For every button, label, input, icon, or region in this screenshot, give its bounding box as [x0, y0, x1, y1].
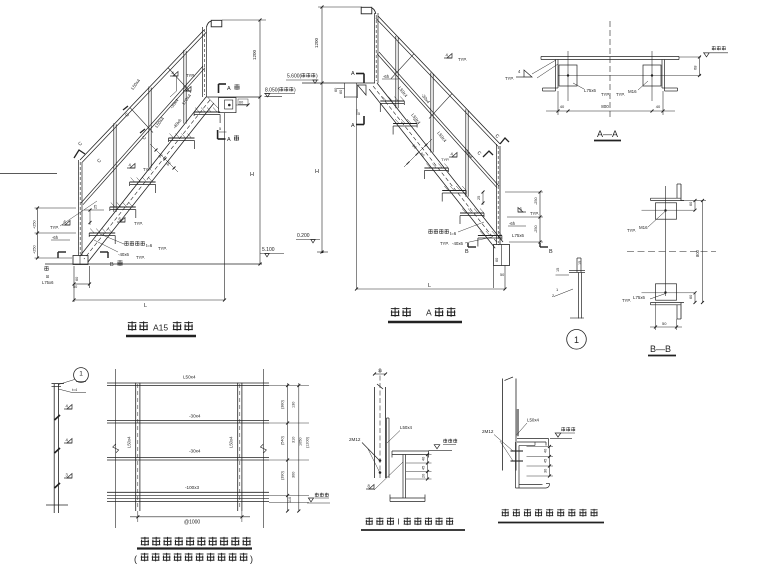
- svg-text:1200: 1200: [252, 49, 257, 60]
- svg-text:5.600(: 5.600(: [287, 74, 302, 80]
- svg-text:25: 25: [94, 205, 98, 209]
- svg-text:60: 60: [239, 101, 243, 105]
- svg-text:1: 1: [574, 335, 579, 345]
- svg-text:TYP.: TYP.: [50, 225, 59, 230]
- svg-text:1: 1: [79, 371, 83, 378]
- svg-text:(: (: [134, 554, 137, 564]
- svg-text:L50x4: L50x4: [183, 375, 196, 380]
- svg-text:H: H: [315, 169, 319, 175]
- svg-text:15: 15: [578, 261, 582, 265]
- svg-text:130: 130: [292, 402, 296, 408]
- svg-text:1050: 1050: [299, 438, 303, 446]
- svg-text:60: 60: [689, 295, 693, 299]
- svg-text:(1200): (1200): [306, 436, 310, 448]
- svg-text:50: 50: [73, 285, 77, 289]
- svg-text:A: A: [351, 71, 355, 77]
- svg-text:40: 40: [560, 104, 565, 109]
- svg-text:L50x4: L50x4: [400, 425, 413, 430]
- svg-text:M16: M16: [639, 225, 648, 230]
- svg-text:I: I: [398, 518, 400, 527]
- svg-text:L75x6: L75x6: [512, 233, 525, 238]
- svg-text:50: 50: [662, 321, 667, 326]
- svg-text:8.050(: 8.050(: [265, 88, 280, 94]
- svg-text:(540): (540): [281, 435, 285, 445]
- svg-text:TYP.: TYP.: [601, 92, 610, 97]
- svg-text:110: 110: [288, 497, 292, 503]
- svg-text:-250: -250: [534, 225, 538, 233]
- svg-text:60: 60: [495, 258, 499, 262]
- svg-text:TYP.: TYP.: [616, 92, 625, 97]
- svg-text:(390): (390): [281, 470, 285, 480]
- svg-text:40: 40: [656, 104, 661, 109]
- svg-text:TYP.: TYP.: [441, 157, 449, 162]
- svg-text:-6h: -6h: [52, 235, 59, 240]
- svg-text:-40x6: -40x6: [452, 241, 464, 246]
- svg-text:1200: 1200: [314, 37, 319, 48]
- svg-text:15: 15: [556, 268, 560, 272]
- svg-text:TYP.: TYP.: [440, 241, 449, 246]
- svg-text:45: 45: [422, 466, 426, 470]
- svg-text:A: A: [227, 86, 231, 92]
- svg-text:t=6: t=6: [450, 231, 457, 236]
- svg-text:TYP.: TYP.: [143, 167, 152, 172]
- svg-text:-100x3: -100x3: [185, 485, 199, 490]
- svg-text:25: 25: [477, 196, 481, 200]
- svg-text:300: 300: [292, 472, 296, 478]
- svg-text:B: B: [549, 249, 553, 255]
- svg-text:20: 20: [422, 474, 426, 478]
- svg-text:5: 5: [219, 127, 221, 131]
- svg-text:800: 800: [601, 104, 609, 109]
- svg-text:-40x6: -40x6: [118, 252, 130, 257]
- svg-text:): ): [250, 554, 253, 564]
- svg-text:TYP.: TYP.: [136, 255, 145, 260]
- svg-text:40: 40: [544, 449, 548, 453]
- svg-text:60: 60: [339, 90, 343, 94]
- svg-text:TYP.: TYP.: [134, 221, 143, 226]
- svg-text:L: L: [144, 303, 147, 309]
- svg-text:-30x4: -30x4: [189, 449, 201, 454]
- svg-text:TYP.: TYP.: [505, 76, 514, 81]
- svg-text:B: B: [110, 262, 114, 268]
- svg-text:30: 30: [544, 469, 548, 473]
- svg-text:L75x6: L75x6: [584, 88, 597, 93]
- svg-text:50: 50: [500, 273, 504, 277]
- svg-text:2M12: 2M12: [349, 437, 361, 442]
- svg-text:-6h: -6h: [509, 221, 516, 226]
- svg-text:TYP.: TYP.: [458, 57, 467, 62]
- svg-text:45: 45: [544, 459, 548, 463]
- svg-text:68: 68: [693, 65, 698, 70]
- svg-text:(380): (380): [281, 399, 285, 409]
- svg-text:TYP.: TYP.: [622, 298, 631, 303]
- svg-text:TYP.: TYP.: [186, 73, 195, 78]
- svg-text:L50x4: L50x4: [229, 436, 234, 448]
- svg-text:A15: A15: [153, 323, 168, 333]
- svg-text:A: A: [351, 123, 355, 129]
- svg-text:t=6: t=6: [146, 243, 153, 248]
- svg-text:5.100: 5.100: [262, 247, 275, 253]
- svg-text:+250: +250: [33, 220, 37, 229]
- svg-text:L50x4: L50x4: [127, 436, 132, 448]
- svg-text:5: 5: [358, 112, 360, 116]
- svg-text:H: H: [250, 172, 254, 178]
- svg-text:@1000: @1000: [184, 520, 200, 526]
- svg-text:60: 60: [75, 277, 79, 281]
- svg-text:B—B: B—B: [650, 344, 671, 354]
- svg-text:40: 40: [422, 457, 426, 461]
- svg-text:L: L: [428, 283, 431, 289]
- svg-text:-6h: -6h: [383, 74, 390, 79]
- svg-text:t=4: t=4: [72, 388, 77, 392]
- svg-text:L50x4: L50x4: [527, 418, 540, 423]
- svg-text:TYP.: TYP.: [627, 228, 636, 233]
- svg-text:M16: M16: [628, 89, 637, 94]
- svg-text:B: B: [45, 275, 50, 278]
- svg-text:+250: +250: [33, 245, 37, 254]
- svg-text:2M12: 2M12: [482, 429, 494, 434]
- svg-text:310: 310: [292, 437, 296, 443]
- svg-text:A: A: [227, 137, 231, 143]
- svg-text:30: 30: [378, 369, 382, 373]
- svg-text:TYP.: TYP.: [158, 246, 167, 251]
- svg-text:60: 60: [689, 202, 693, 206]
- svg-text:-250: -250: [534, 197, 538, 205]
- svg-text:-30x4: -30x4: [189, 414, 201, 419]
- svg-text:L75x6: L75x6: [42, 280, 54, 285]
- svg-text:B: B: [465, 249, 469, 255]
- svg-text:A—A: A—A: [597, 129, 618, 139]
- svg-text:L75x6: L75x6: [633, 295, 646, 300]
- svg-text:800: 800: [695, 249, 700, 257]
- svg-text:0.200: 0.200: [297, 233, 310, 239]
- svg-text:A: A: [426, 308, 432, 318]
- svg-text:TYP.: TYP.: [530, 211, 539, 216]
